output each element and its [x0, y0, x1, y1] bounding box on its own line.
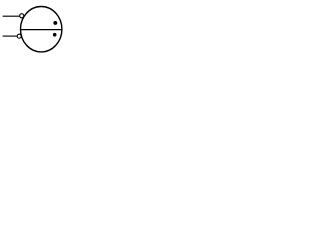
button dot (upper): [53, 21, 57, 25]
button dot (lower): [53, 33, 57, 37]
terminal T2 (lower): [17, 34, 21, 38]
microphone MK1 envelope: [21, 7, 62, 52]
terminal T1 (upper): [20, 14, 24, 18]
wire (upper lead): [3, 15, 20, 17]
wire (lower lead): [3, 35, 17, 37]
diaphragm line: [21, 29, 62, 31]
